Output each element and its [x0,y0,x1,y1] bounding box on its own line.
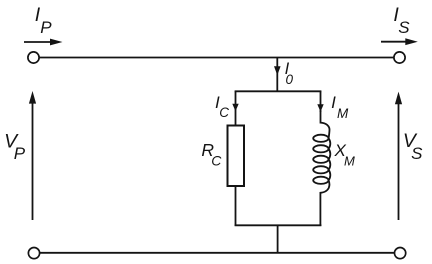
terminal (top-left primary) [28,52,39,63]
current arrow IP [24,39,63,46]
wire left branch upper with current arrow IC [232,91,238,126]
label RC [201,140,222,168]
svg-text:I: I [331,93,336,112]
wire shunt box top rail [235,90,322,92]
svg-text:P: P [14,144,26,163]
wire center bottom tap [277,225,279,253]
label XM [334,141,356,169]
terminal (top-right secondary) [394,52,405,63]
svg-text:S: S [398,18,410,37]
resistor RC [228,126,245,187]
wire left branch lower [235,186,237,226]
svg-text:M: M [344,154,355,169]
voltage arrow VS [395,92,402,220]
terminal (bottom-left primary) [28,248,39,259]
wire shunt box bottom rail [235,224,322,226]
svg-text:C: C [211,153,222,169]
label IS [393,4,410,37]
label IC [215,93,229,120]
label IP [35,4,53,37]
svg-text:P: P [40,18,52,37]
current arrow IS [381,38,418,45]
voltage arrow VP [29,91,36,220]
svg-text:S: S [411,144,423,163]
svg-text:0: 0 [286,72,294,87]
wire top rail [40,57,394,59]
label VS [403,130,423,163]
label VP [4,130,26,163]
terminal (bottom-right secondary) [395,248,406,259]
inductor XM coil [313,111,330,193]
wire right branch lower [319,193,321,226]
label IM [331,93,349,121]
wire right branch upper with current arrow IM [317,91,323,112]
svg-text:C: C [219,105,229,120]
wire bottom rail [40,252,394,254]
svg-text:M: M [337,106,349,121]
label I0 [285,60,294,87]
wire center tap with current arrow I0 [274,58,281,91]
